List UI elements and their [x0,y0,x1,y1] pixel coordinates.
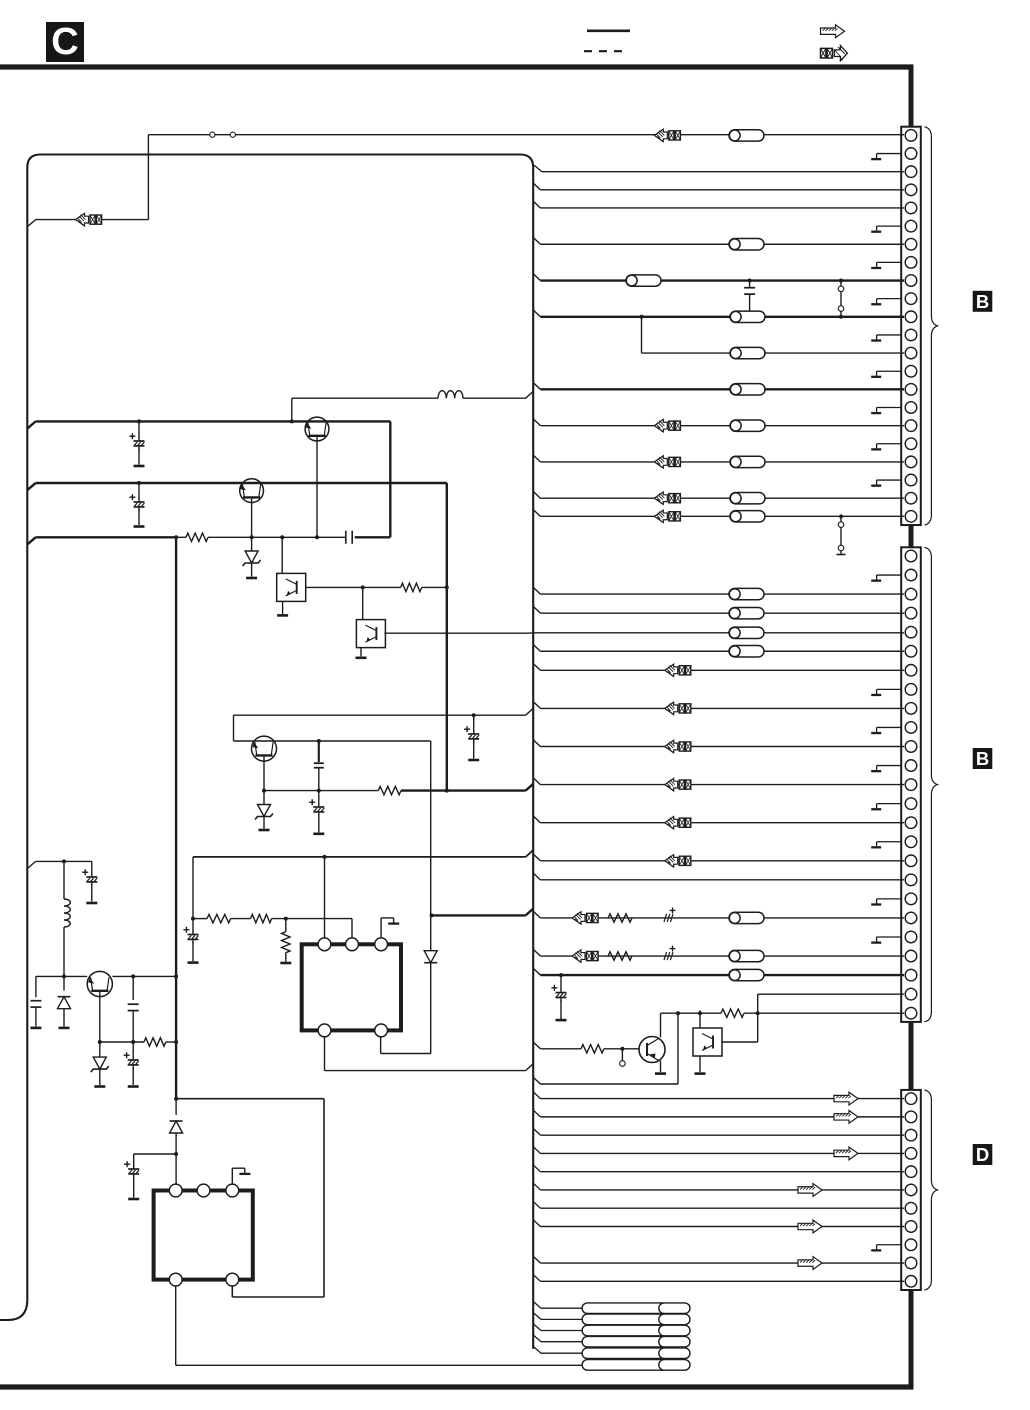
cable bead short 2 [659,1314,690,1325]
wire D pin11 [533,1275,540,1282]
connector B1 pin 19 [905,456,917,468]
outer border bottom [0,1384,913,1389]
thick wire into bus (y915) [432,914,526,916]
resistor R6 to ground [285,919,287,932]
legend arrow dashed small [821,48,826,58]
capacitor C12 [133,1154,135,1166]
stub B1 pin20 [877,479,902,481]
diode D3 [175,1099,177,1115]
capacitor C6 [318,791,320,804]
capacitor C4 to ground [472,713,476,717]
U3 output wire [722,1041,757,1043]
bus outline [0,155,533,1349]
connector D pin 3 [905,1129,917,1141]
wire to relay RL1 pin2 [351,919,353,940]
arrow B2 pin15 [665,817,678,829]
stub B1 pin18 [877,443,902,445]
stub B1 pin6 [877,225,902,227]
arrow B2 pin22 [572,950,585,962]
label D [973,1144,993,1165]
connector B2 pin 18 [905,874,917,886]
cable wire 2 [533,1313,541,1320]
bead B2 pin5 [729,627,764,638]
stub B2 pin8 [877,688,902,690]
arrow left edge [27,220,35,227]
bead B1 pin15 [730,384,765,395]
brace B2 [924,547,937,1022]
wire W19 (y976) [36,975,87,977]
connector B2 pin 4 [905,607,917,619]
connector B2 pin 25 [905,1007,917,1019]
arrow B2 pin9 [665,702,678,714]
connector B2 pin 15 [905,817,917,829]
outer border right segment 1 [909,65,914,128]
stub B2 pin21 [877,936,902,938]
wire B1 pin3 [534,165,542,171]
polarized element on B2 pin20 wire [670,909,676,911]
stub B2 pin12 [877,765,902,767]
wire B2 pin20 [533,911,540,918]
stub B1 pin8 [877,261,902,263]
bead B2 pin6 [729,646,764,657]
svg-text:D: D [976,1144,989,1165]
wire B1 pin13 [640,315,644,319]
wrap wire around RL2 [176,1098,324,1100]
U3 emitter ground [699,1056,701,1072]
wire B2 pin6 [533,644,540,651]
connector B2 pin 14 [905,798,917,810]
connector B2 pin 11 [905,741,917,753]
wire B2 pin24 [758,993,904,995]
wire D pin5 [533,1165,540,1172]
connector D pin 5 [905,1166,917,1178]
wire W11 (y857) [193,856,526,858]
resistor R11 [581,1045,604,1053]
stub B1 pin10 [877,298,902,300]
resistor R1 [186,533,208,541]
connector B2 pin 8 [905,684,917,696]
connector B2 pin 22 [905,950,917,962]
RL1 pin4 wire to bus [324,1037,326,1071]
bead B1 pin13 [730,347,765,358]
label B (lower) [973,748,993,769]
capacitor C5 between rails [318,741,320,762]
connector D pin 4 [905,1148,917,1160]
wire B1 pin9 (thick) [533,274,540,281]
inductor L1 [438,391,463,399]
arrow B2 pin7 [665,664,678,676]
resistor R10 [721,1009,744,1017]
connector B2 pin 19 [905,893,917,905]
connector B2 pin 7 [905,665,917,677]
Q5 base wire [533,1042,540,1049]
bead B2 pin22 [729,950,764,961]
cable wire 3 [533,1324,541,1331]
cable bead short 1 [659,1303,690,1314]
connector B1 pin 18 [905,438,917,450]
connector B1 body [901,127,921,525]
resistor R7 [144,1038,166,1046]
connector D pin 7 [905,1202,917,1214]
wire B1 pin22 [533,510,540,517]
capacitor C16 on pin23 wire [559,973,563,977]
connector D pin 2 [905,1111,917,1123]
stub B2 pin2 [877,574,902,576]
brace B1 [924,127,937,525]
outer border right segment 3 [909,1020,914,1091]
transistor Q3 [234,740,431,742]
diode D1 [430,915,432,950]
connector B1 pin 6 [905,220,917,232]
stub B1 pin16 [877,407,902,409]
connector B1 pin 12 [905,329,917,341]
Q2 collector wire [251,497,253,537]
arrow B2 pin17 [665,855,678,867]
connector B2 pin 6 [905,645,917,657]
arrow D pin8 [798,1220,822,1233]
wire B1 pin15 (thick) [533,383,540,390]
cable bead long 4 [582,1336,668,1347]
U1 output wire [306,586,363,588]
vertical from Q3 collector [430,741,432,915]
connector B1 pin 20 [905,474,917,486]
inductor L2 [63,861,65,899]
cable bead long 5 [582,1348,668,1359]
relay RL1 pin3 stub [380,918,382,940]
resistor on B2 pin20 wire [608,914,632,922]
arrow into B1 pin1 [654,129,667,141]
stub B2 pin10 [877,726,902,728]
W9 corner down to Q3 [233,715,235,741]
wire B2 pin9 [533,702,540,709]
cable wire 1 [533,1301,541,1308]
capacitor C8 [91,861,93,874]
zener ZD2 [263,791,265,805]
transistor Q4 [87,971,112,996]
wire y1084 to bus [677,1013,679,1084]
U2 emitter ground [360,648,362,657]
connector B2 pin 9 [905,703,917,715]
cable bead long 1 [582,1303,668,1314]
connector B1 pin 3 [905,166,917,178]
arrow B2 pin13 [665,778,678,790]
wire B1 pin19 [533,455,540,462]
wire B2 pin7 [533,664,540,671]
connector B1 pin 15 [905,384,917,396]
wire B1 pin11 (thick) [533,310,540,317]
opto U3 [699,1010,701,1028]
wire wrap to RL1 pin5 [381,1053,431,1055]
connector B1 pin 13 [905,347,917,359]
wire D pin10 [533,1256,540,1263]
wire D pin1 [533,1092,540,1099]
wire D pin2 [533,1110,540,1117]
wire B2 pin4 [533,606,540,613]
Q1 collector wire [316,436,318,538]
RL2 pin4 wire [175,1286,177,1365]
brace D [924,1090,937,1290]
thick vertical from W2 [446,483,448,791]
connector B2 pin 17 [905,855,917,867]
svg-text:B: B [976,748,989,769]
diode D1 branch [430,913,434,917]
capacitor C3 inline [345,531,347,544]
legend dashed line [584,50,628,52]
U1 emitter ground [282,601,284,614]
wire to inductor L1 [292,397,438,399]
resistor R5 [251,914,272,922]
wire to relay RL1 pin1 [324,857,326,940]
outer border right segment 2 [909,524,914,549]
connector D pin 10 [905,1257,917,1269]
wire D pin6 [533,1183,540,1190]
jumper ring below [621,1049,623,1061]
connector B1 pin 8 [905,257,917,269]
connector B1 pin 7 [905,238,917,250]
transistor Q2 [240,479,264,503]
connector B1 pin 1 [905,130,917,142]
wire B1 pin21 [533,491,540,498]
capacitor between pin9 and pin11 wires [748,279,752,283]
cable bead short 5 [659,1348,690,1359]
relay RL2 pin3 stub [231,1168,233,1186]
cable bead short 4 [659,1336,690,1347]
wire B2 pin25 [661,1012,722,1014]
wire B1 pin1 top run [148,134,904,136]
bead B1 pin7 [729,239,764,250]
connector D body [901,1090,921,1290]
cable wire 4 [533,1335,541,1342]
wire B2 pin22 [533,949,540,956]
cable bead long 6 [582,1360,668,1371]
connector B2 pin 3 [905,588,917,600]
connector B1 pin 5 [905,202,917,214]
connector B2 pin 2 [905,569,917,581]
jumper below pin22 [839,514,843,518]
stub B2 pin19 [877,898,902,900]
legend arrow solid [821,25,845,38]
connector D pin 8 [905,1221,917,1233]
bead B2 pin23 [729,969,764,980]
connector D pin 6 [905,1184,917,1196]
connector D pin 9 [905,1239,917,1251]
arrow B2 pin20 [572,912,585,924]
capacitor C2 on W2 [137,481,141,485]
wire W13 (y918) [193,918,207,920]
wire D pin4 [533,1147,540,1154]
connector B1 pin 9 [905,275,917,287]
jumper between pin9 and pin11 wires [839,279,843,283]
polarized element on B2 pin22 wire [670,948,676,950]
wire D pin8 [533,1220,540,1227]
resistor R4 [207,914,231,922]
connector B1 pin 10 [905,293,917,305]
zener ZD3 [99,1042,101,1057]
opto U2 [362,587,364,619]
thick branch W1 down [389,421,391,537]
cable wire 5 [533,1346,541,1353]
wire W18 (y861) [27,861,35,868]
connector B2 pin 16 [905,836,917,848]
Q5 collector riser [660,1013,662,1037]
wire B2 pin3 [533,587,540,594]
Q4 emitter down [99,991,101,1042]
connector D pin 1 [905,1093,917,1105]
capacitor C7 [192,919,194,932]
wire W3 (y537) [27,537,35,544]
bead B1 pin11 [730,311,765,322]
connector B2 pin 21 [905,931,917,943]
connector B2 body [901,547,921,1022]
stub B2 pin16 [877,841,902,843]
relay RL1 [302,944,401,1030]
thick vertical trunk x176 [175,537,177,1098]
connector B2 pin 12 [905,760,917,772]
connector D pin 11 [905,1276,917,1288]
connector B1 pin 2 [905,148,917,160]
stub B1 pin14 [877,370,902,372]
outer border right segment 4 [909,1289,914,1389]
wire D pin7 [533,1201,540,1208]
wire W10 (y790) [264,790,378,792]
connector B1 pin 4 [905,184,917,196]
capacitor C1 on W1 [137,419,141,423]
W11 corner down [192,857,194,919]
label B (upper) [973,291,993,312]
wire B1 pin7 [533,237,540,244]
connector B2 pin 1 [905,550,917,562]
arrow D pin1 [834,1092,858,1105]
bead B2 pin3 [729,588,764,599]
wire B2 pin18 [533,873,540,880]
stub B2 pin14 [877,803,902,805]
cable bead short 6 [659,1360,690,1371]
connector B1 pin 16 [905,402,917,414]
connector B1 pin 14 [905,365,917,377]
legend solid line [587,29,630,32]
arrow D pin10 [798,1257,822,1270]
wire D pin3 [533,1128,540,1135]
wire W9 (y715) [233,714,525,716]
cable bead long 3 [582,1325,668,1336]
wire B2 pin17 [533,854,540,861]
wire B1 pin5 [533,201,540,208]
resistor on B2 pin22 wire [608,952,632,960]
connector B1 pin 17 [905,420,917,432]
bead B1 pin9 [626,275,661,286]
transistor Q5 [639,1037,665,1063]
arrow B2 pin11 [665,740,678,752]
cable bead long 2 [582,1314,668,1325]
connector B2 pin 10 [905,722,917,734]
svg-text:B: B [976,291,989,312]
bead B1 pin1 [729,130,764,141]
wire B2 pin15 [533,816,540,823]
wire B1 pin17 [533,419,540,426]
wire B2 pin23 (thick) [533,968,540,975]
jumper rings on top wire [210,132,215,137]
connector B1 pin 11 [905,311,917,323]
node W1 to coil [290,419,294,423]
opto U1 [281,537,283,573]
capacitor C9 [35,976,37,997]
U2 output wire to B2 pin5 [384,632,527,634]
wire W20 (y1042) [100,1041,144,1043]
outer border top [0,64,913,69]
stub B1 pin12 [877,334,902,336]
capacitor C11 [132,1042,134,1057]
connector B2 pin 23 [905,969,917,981]
bead B2 pin20 [729,912,764,923]
bead B2 pin4 [729,607,764,618]
resistor R2 [401,583,422,591]
relay RL2 [154,1191,253,1280]
wire B2 pin13 [533,778,540,785]
arrow D pin4 [834,1147,858,1160]
wire W2 rail (y483) [27,483,35,490]
connector B1 pin 22 [905,511,917,523]
capacitor C10 [132,976,134,1000]
stub D pin9 [877,1244,902,1246]
wire B1 pin4 [533,183,540,190]
transistor Q1 [305,417,329,441]
connector B1 pin 21 [905,492,917,504]
arrow D pin2 [834,1110,858,1123]
connector B2 pin 5 [905,626,917,638]
arrow D pin6 [798,1184,822,1197]
wire to C12 [134,1153,176,1155]
resistor R3 [378,786,401,794]
connector B2 pin 13 [905,779,917,791]
page label C [46,22,84,62]
wire vertical to AGB arrow [147,135,149,220]
wire W1 +B rail (y421) [27,421,35,428]
wire B2 pin11 [533,740,540,747]
svg-text:C: C [51,21,78,63]
connector B2 pin 24 [905,988,917,1000]
Q5 emitter ground [660,1061,662,1072]
Q3 emitter down [263,755,265,790]
stub B1 pin2 [877,153,902,155]
diode D2 [63,976,65,990]
connector B2 pin 20 [905,912,917,924]
wire B2 pin5 from opto [527,632,536,634]
cable bead short 3 [659,1325,690,1336]
zener ZD1 [251,537,253,551]
